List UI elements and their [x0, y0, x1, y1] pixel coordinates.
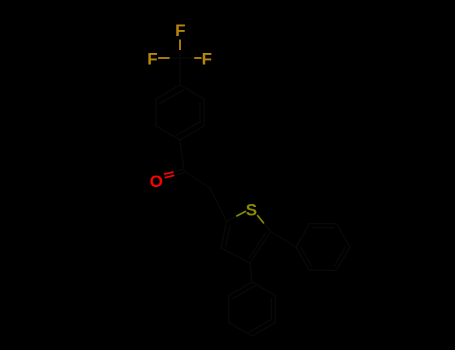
svg-text:S: S [246, 200, 257, 219]
svg-text:F: F [147, 50, 157, 69]
C-F bond left (fluorine half) [158, 57, 170, 59]
chain CH2 to C2 [210, 188, 227, 222]
svg-text:O: O [150, 172, 163, 191]
C-F bond top (fluorine half) [179, 40, 181, 51]
benzene ring (black-on-black skeleton) [156, 85, 204, 140]
carbonyl C=O black halves [174, 169, 185, 175]
C=O double bond oxygen half line 2 [165, 175, 175, 178]
chain carbonyl C to CH2 [184, 171, 210, 188]
CF3 stem bond [179, 58, 181, 85]
svg-text:F: F [175, 21, 185, 40]
C=O double bond oxygen half line 1 [164, 172, 174, 174]
svg-text:F: F [202, 50, 212, 69]
phenyl A bottom [229, 282, 276, 336]
C-F bond right (fluorine half) [194, 57, 201, 59]
thiophene ring black parts [221, 216, 271, 263]
S-C2 bond (sulfur half) [236, 211, 246, 216]
S-C5 bond (sulfur half) [257, 215, 264, 223]
CF3 carbon half-bonds (carbon side, black) [170, 50, 195, 58]
bond ring to carbonyl C [180, 140, 184, 171]
bond C4 to phenyl A [250, 263, 252, 282]
phenyl B right [296, 224, 350, 271]
bond C5 to phenyl B [271, 232, 297, 248]
